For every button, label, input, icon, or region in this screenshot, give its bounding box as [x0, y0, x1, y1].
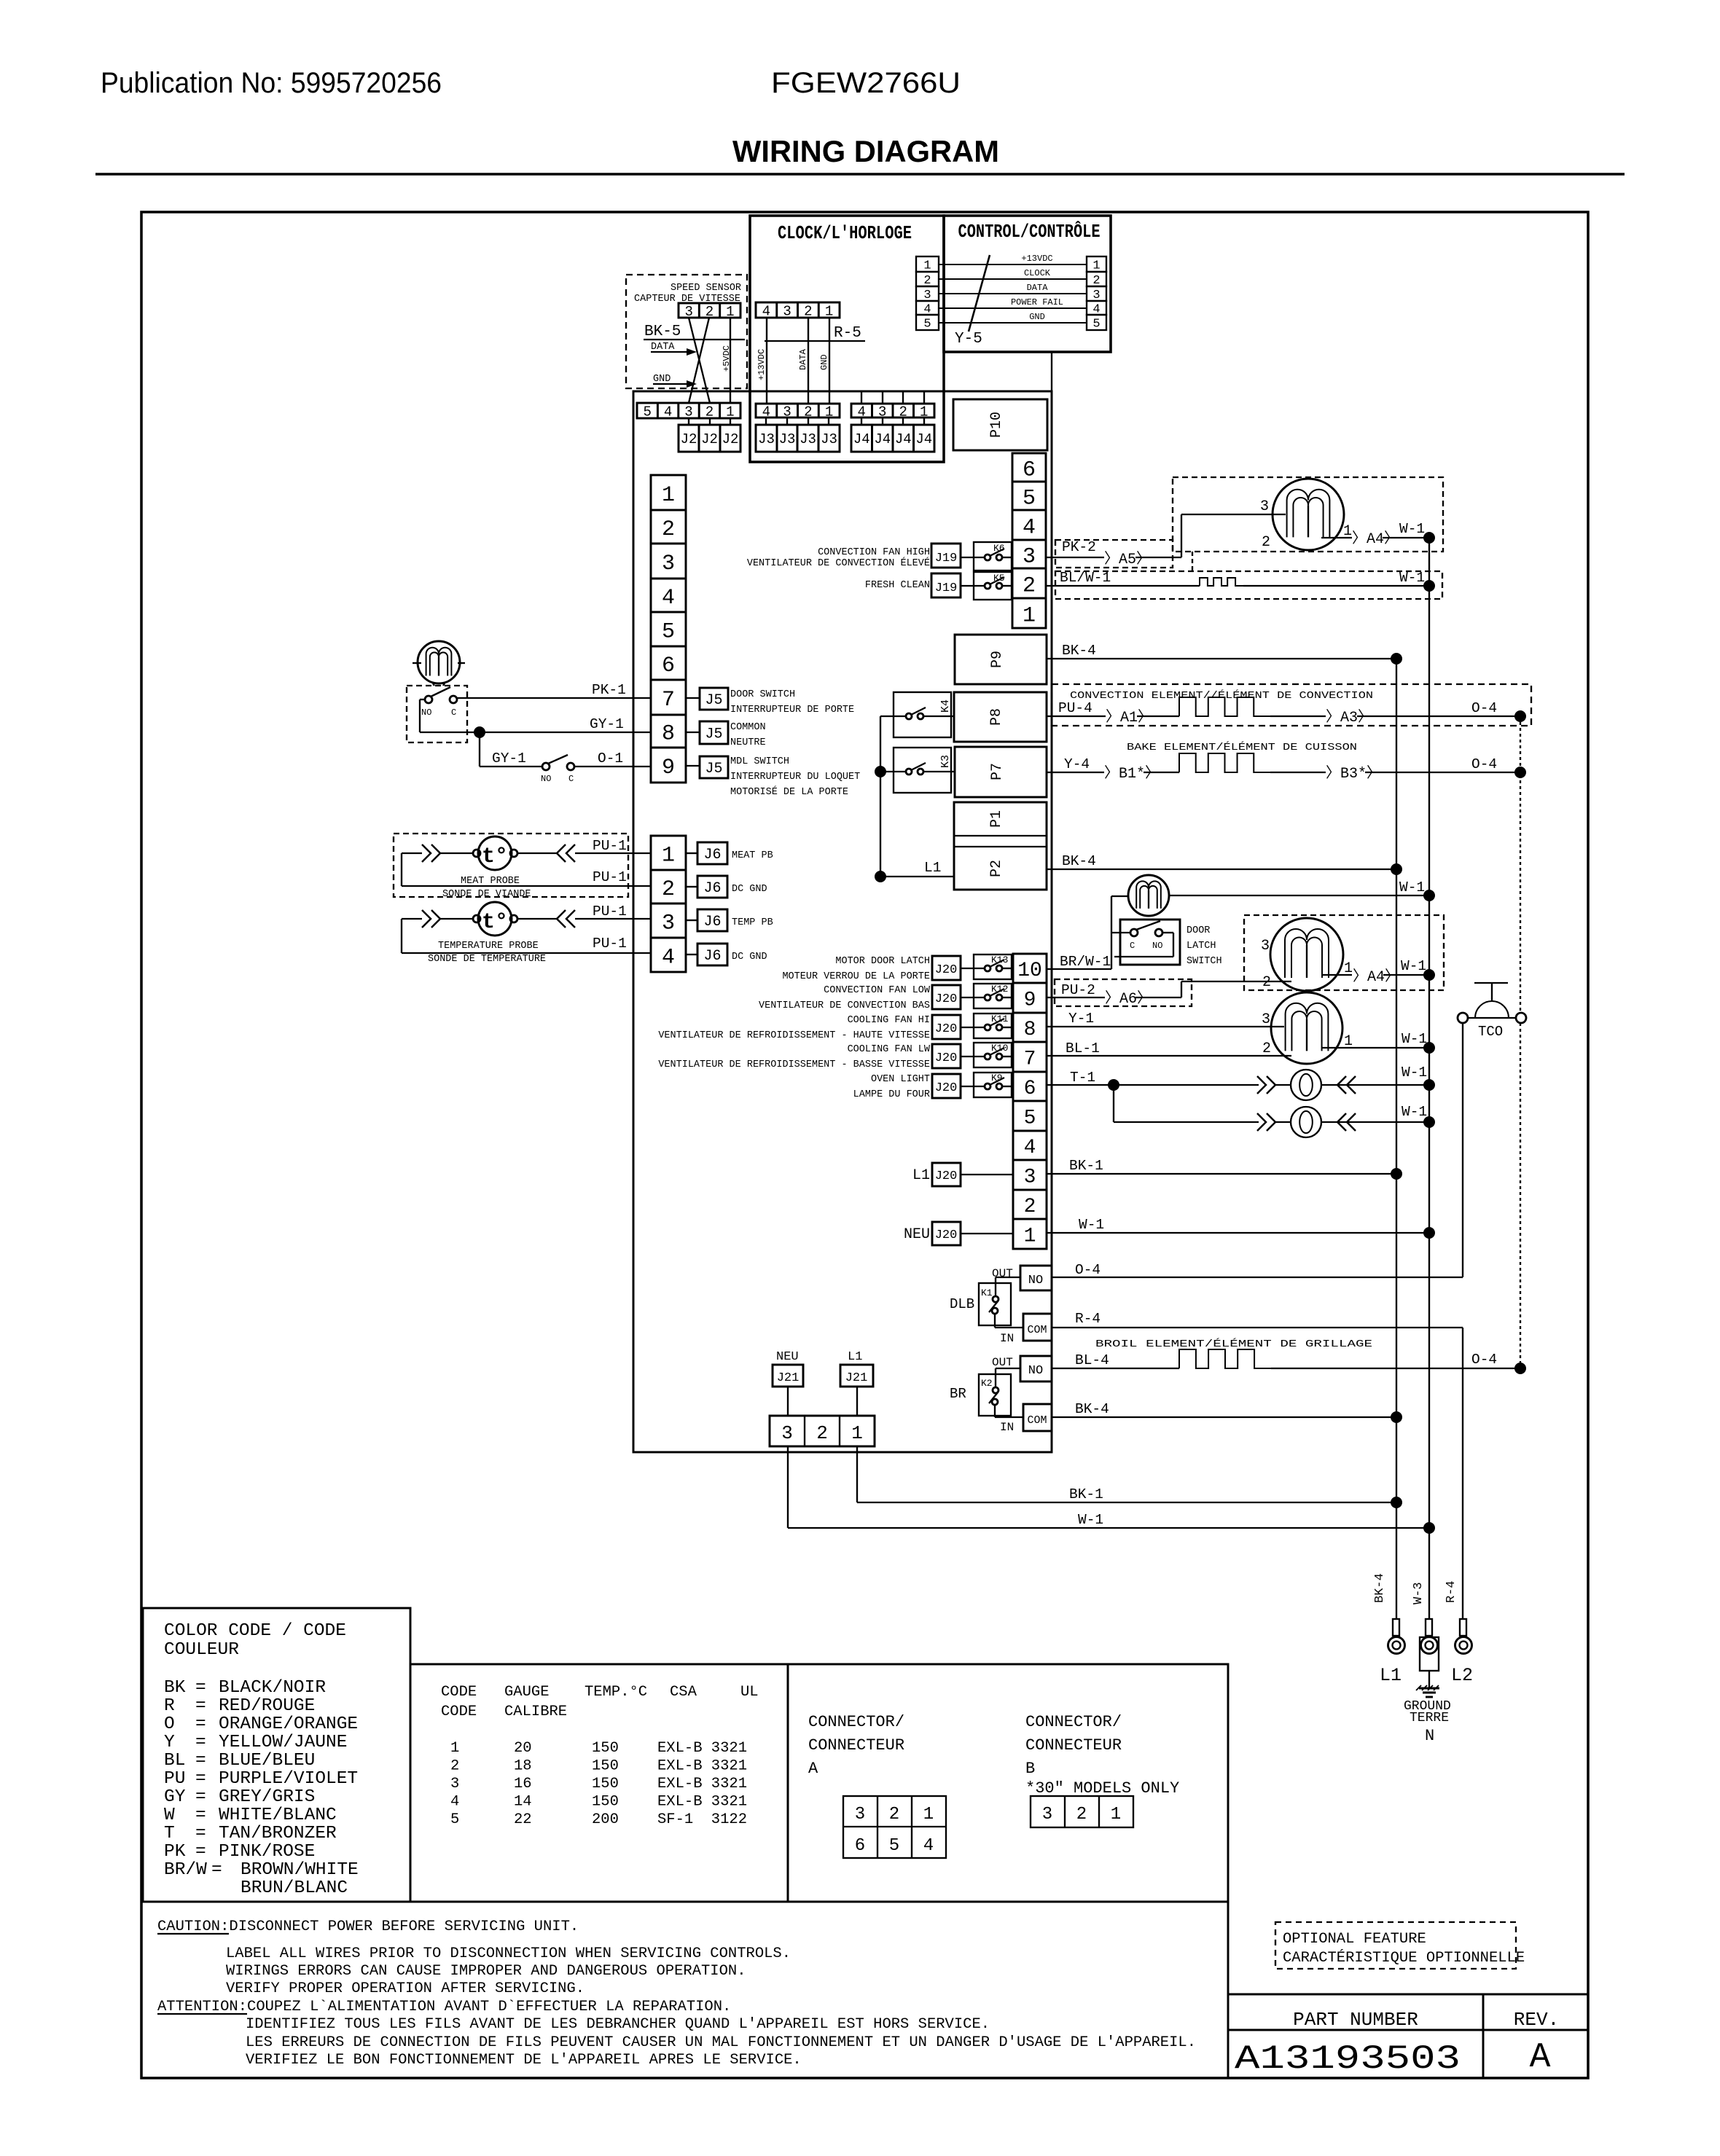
- clock box CLOCK/L'HORLOGE: [750, 216, 944, 462]
- junction W-1 conv fan low: [1423, 969, 1435, 981]
- oven lamp 2 right arrows: [1337, 1113, 1356, 1131]
- junction W-1 door latch motor: [1423, 890, 1435, 901]
- connector P9: [955, 635, 1047, 684]
- svg-text:14: 14: [514, 1794, 532, 1811]
- svg-text:O-4: O-4: [1471, 1352, 1497, 1368]
- svg-text:BL: BL: [164, 1751, 185, 1771]
- control box title: [958, 221, 1101, 243]
- svg-text:SPEED SENSOR: SPEED SENSOR: [671, 283, 741, 294]
- wire Y-4 from P7: [1047, 756, 1104, 772]
- color code box: [143, 1608, 410, 1902]
- temperature probe connector arrows right: [557, 910, 575, 928]
- svg-text:2: 2: [450, 1758, 459, 1775]
- svg-text:J6: J6: [703, 880, 721, 897]
- svg-text:=: =: [195, 1678, 206, 1698]
- wire T-1 oven light: [1047, 1070, 1259, 1086]
- svg-text:1: 1: [726, 404, 734, 420]
- svg-text:J20: J20: [935, 1169, 958, 1183]
- door latch motor wires: [1111, 879, 1429, 896]
- svg-text:LATCH: LATCH: [1187, 941, 1216, 952]
- J19 box convection fan high: [931, 544, 961, 568]
- junction W-1 fresh clean: [1423, 580, 1435, 592]
- svg-text:=: =: [195, 1824, 206, 1843]
- terminal L1 ring: [1388, 1619, 1405, 1654]
- svg-text:8: 8: [662, 721, 675, 746]
- svg-text:W-3: W-3: [1412, 1582, 1426, 1604]
- svg-text:COULEUR: COULEUR: [164, 1640, 239, 1660]
- node arrow A3: [1326, 709, 1372, 726]
- part number table: [1228, 1994, 1588, 2078]
- svg-text:DC GND: DC GND: [732, 952, 767, 963]
- node arrow A6: [1105, 990, 1152, 1008]
- temp probe return wire PU-1 to J6 pin4: [402, 919, 651, 953]
- wire R-4 DLB COM: [1052, 1311, 1463, 1619]
- svg-text:7: 7: [662, 688, 675, 713]
- svg-text:DC GND: DC GND: [732, 884, 767, 895]
- door switch internal wire: [420, 699, 480, 732]
- svg-text:2: 2: [1024, 1196, 1036, 1218]
- relay K12 switch: [961, 989, 1013, 1000]
- svg-text:t°: t°: [482, 844, 508, 869]
- svg-text:K12: K12: [991, 984, 1008, 995]
- svg-text:J20: J20: [935, 1228, 958, 1242]
- svg-text:CLOCK/L'HORLOGE: CLOCK/L'HORLOGE: [778, 222, 912, 244]
- junction node L1: [875, 871, 886, 882]
- wire bus O-4 upper vertical: [1520, 716, 1521, 1013]
- wire bus W-1 vertical: [1428, 538, 1430, 1619]
- meat probe sensor t-circle: [440, 836, 557, 870]
- svg-text:W-1: W-1: [1399, 570, 1425, 586]
- wire O-4 convection: [1357, 700, 1520, 716]
- wire T-1 branch to lamp2: [1114, 1085, 1259, 1122]
- label BK-4 vertical: [1373, 1573, 1387, 1603]
- J6 pin column 1-4: [651, 836, 686, 972]
- svg-text:〉B1*〉: 〉B1*〉: [1104, 765, 1160, 783]
- svg-text:MEAT PB: MEAT PB: [732, 850, 773, 861]
- svg-text:t°: t°: [482, 910, 508, 935]
- clock wires to J3: [767, 318, 829, 403]
- svg-text:2: 2: [889, 1805, 899, 1824]
- wire PU-1 meat to J6 pin1: [575, 838, 651, 854]
- svg-text:J2: J2: [722, 431, 739, 447]
- svg-text:COLOR CODE / CODE: COLOR CODE / CODE: [164, 1621, 346, 1641]
- svg-text:3: 3: [783, 303, 791, 319]
- label L1 J21: [848, 1350, 862, 1364]
- svg-text:4: 4: [923, 1836, 934, 1856]
- svg-text:〉A4〉: 〉A4〉: [1353, 968, 1399, 986]
- svg-text:5: 5: [923, 318, 931, 332]
- svg-text:BR/W: BR/W: [164, 1860, 207, 1880]
- relay K4 switch: [880, 707, 954, 719]
- svg-text:WIRING DIAGRAM: WIRING DIAGRAM: [732, 134, 999, 168]
- svg-text:O-1: O-1: [598, 750, 623, 767]
- svg-text:O-4: O-4: [1471, 756, 1497, 772]
- wire gauge table box: [410, 1664, 788, 1902]
- relay K10 switch: [961, 1048, 1013, 1059]
- link control box to board: [1051, 352, 1052, 391]
- meat probe dashed box: [394, 834, 628, 897]
- svg-text:1: 1: [923, 1805, 934, 1824]
- door motor: [413, 641, 465, 686]
- label FRESH CLEAN: [865, 580, 930, 591]
- conv fan low dashed box: [1244, 915, 1444, 990]
- svg-text:J5: J5: [705, 692, 722, 709]
- svg-text:3: 3: [1023, 544, 1036, 569]
- svg-text:=: =: [195, 1696, 206, 1716]
- wire lamp1 to W-1: [1321, 1065, 1429, 1085]
- speed sensor dashed box: [626, 275, 747, 388]
- wire down to MDL switch: [480, 732, 542, 767]
- svg-text:ATTENTION:COUPEZ L`ALIMENTATIO: ATTENTION:COUPEZ L`ALIMENTATION AVANT D`…: [157, 1999, 731, 2015]
- svg-text:LES ERREURS DE CONNECTION DE F: LES ERREURS DE CONNECTION DE FILS PEUVEN…: [246, 2034, 1196, 2051]
- door latch motor: [1128, 875, 1169, 916]
- svg-text:GY-1: GY-1: [492, 750, 526, 767]
- svg-text:OPTIONAL FEATURE: OPTIONAL FEATURE: [1283, 1931, 1426, 1948]
- svg-text:3: 3: [1260, 498, 1269, 515]
- svg-text:IDENTIFIEZ TOUS LES FILS AVANT: IDENTIFIEZ TOUS LES FILS AVANT DE LES DE…: [246, 2016, 990, 2033]
- thermal cutoff TCO: [1458, 983, 1526, 1040]
- control-clock signal wires +13VDC CLOCK DATA POWER FAIL GND: [939, 254, 1087, 323]
- J3 pin header 4-3-2-1: [756, 404, 840, 420]
- svg-text:3: 3: [1262, 1011, 1270, 1028]
- wire lamp2 to W-1: [1321, 1104, 1429, 1122]
- svg-text:O: O: [164, 1714, 175, 1734]
- J20 box L1: [912, 1163, 961, 1186]
- svg-text:〉A3〉: 〉A3〉: [1326, 709, 1372, 726]
- svg-text:J2: J2: [681, 431, 697, 447]
- svg-text:P8: P8: [988, 708, 1005, 726]
- convection element resistor: [1137, 697, 1326, 716]
- wire PK-1 to J5 pin7: [457, 682, 651, 698]
- svg-text:SONDE DE VIANDE: SONDE DE VIANDE: [442, 889, 531, 900]
- svg-text:CODE: CODE: [441, 1704, 477, 1720]
- svg-text:=: =: [195, 1769, 206, 1789]
- wire J20 NEU to pin1: [961, 1233, 1013, 1234]
- svg-text:CONVECTION ELEMENT//ÉLÉMENT DE: CONVECTION ELEMENT//ÉLÉMENT DE CONVECTIO…: [1070, 690, 1373, 702]
- door latch switch contacts: [1130, 921, 1162, 951]
- label +5VDC vertical: [722, 345, 732, 372]
- svg-text:J19: J19: [935, 552, 958, 565]
- svg-text:BK-1: BK-1: [1069, 1486, 1103, 1502]
- control connector right pins 1-5: [1087, 256, 1106, 332]
- svg-text:J5: J5: [705, 761, 722, 777]
- wire Y-1 to motor pin3: [1047, 1011, 1284, 1028]
- svg-text:P10: P10: [988, 412, 1005, 438]
- svg-text:UL: UL: [740, 1684, 759, 1701]
- temperature probe connector arrows left: [422, 910, 440, 928]
- svg-text:PK-1: PK-1: [592, 682, 626, 698]
- label GY-1: [590, 716, 624, 732]
- svg-text:BLACK/NOIR: BLACK/NOIR: [219, 1678, 326, 1698]
- svg-text:L2: L2: [1451, 1665, 1473, 1686]
- svg-text:REV.: REV.: [1514, 2009, 1559, 2031]
- wire BK-4 from P9: [1047, 643, 1396, 659]
- svg-text:6: 6: [1023, 458, 1036, 482]
- label IN DLB: [1000, 1332, 1014, 1345]
- door switch contacts NO C: [421, 687, 457, 718]
- svg-text:5: 5: [662, 619, 675, 644]
- label DATA vertical: [798, 348, 808, 370]
- svg-text:2: 2: [1023, 573, 1036, 598]
- header model number FGEW2766U: [771, 67, 961, 99]
- connector P7: [955, 747, 1047, 797]
- svg-text:P2: P2: [988, 860, 1005, 877]
- svg-text:PU-2: PU-2: [1061, 982, 1095, 998]
- svg-text:COM: COM: [1027, 1414, 1047, 1427]
- svg-text:CONVECTION FAN HIGH: CONVECTION FAN HIGH: [818, 547, 930, 558]
- relay K2 box BR: [979, 1374, 1011, 1416]
- label COOLING FAN LW: [658, 1044, 931, 1070]
- svg-text:1: 1: [1344, 960, 1353, 977]
- meat probe return wire PU-1 to J6 pin2: [402, 853, 651, 886]
- ground symbol: [1416, 1671, 1439, 1697]
- label OUT BR: [992, 1356, 1013, 1369]
- svg-text:CONNECTEUR: CONNECTEUR: [808, 1736, 904, 1755]
- junction W-1 A4 top: [1423, 532, 1435, 544]
- relay K5 box: [974, 572, 1012, 600]
- wire bus BK vertical: [1396, 659, 1397, 1619]
- svg-text:DATA: DATA: [798, 348, 808, 370]
- oven lamp 1: [1275, 1070, 1321, 1100]
- svg-text:1: 1: [851, 1422, 863, 1444]
- J2 connector boxes: [679, 418, 740, 452]
- svg-text:BK-4: BK-4: [1062, 853, 1096, 869]
- node arrow B3*: [1326, 765, 1381, 783]
- label DATA with arrow: [651, 342, 697, 356]
- svg-text:3: 3: [450, 1776, 459, 1792]
- J3 connector boxes: [756, 418, 840, 452]
- svg-text:W-1: W-1: [1401, 958, 1426, 974]
- svg-text:NEUTRE: NEUTRE: [730, 737, 766, 748]
- convection element dashed box: [1052, 684, 1531, 726]
- oven lamp 1 connector arrows: [1257, 1076, 1275, 1094]
- svg-text:YELLOW/JAUNE: YELLOW/JAUNE: [219, 1733, 347, 1752]
- wire O-4 bake: [1365, 756, 1520, 772]
- node arrow A5: [1104, 551, 1151, 568]
- svg-text:=: =: [195, 1842, 206, 1862]
- svg-text:BL/W-1: BL/W-1: [1060, 570, 1111, 586]
- svg-text:+13VDC: +13VDC: [757, 349, 767, 380]
- svg-text:N: N: [1425, 1727, 1434, 1745]
- svg-text:VENTILATEUR DE CONVECTION BAS: VENTILATEUR DE CONVECTION BAS: [759, 1000, 930, 1011]
- broil element resistor: [1179, 1349, 1520, 1368]
- motor M1 pin1 wire to A4: [1321, 521, 1429, 548]
- connector P1 P2: [954, 802, 1047, 890]
- svg-text:IN: IN: [1000, 1332, 1014, 1345]
- svg-text:RED/ROUGE: RED/ROUGE: [219, 1696, 315, 1716]
- svg-text:TCO: TCO: [1478, 1024, 1503, 1040]
- svg-text:Y-5: Y-5: [955, 331, 982, 348]
- wire A6 to motor pin2: [1135, 974, 1291, 997]
- wire from header pin1 down: [856, 1446, 858, 1502]
- svg-text:W-1: W-1: [1399, 879, 1425, 895]
- svg-text:5: 5: [889, 1836, 899, 1856]
- J5 pin column 1-9: [651, 475, 686, 783]
- svg-text:BROIL ELEMENT/ÉLÉMENT DE GRILL: BROIL ELEMENT/ÉLÉMENT DE GRILLAGE: [1095, 1338, 1372, 1350]
- junction BK-4 P2: [1391, 863, 1402, 875]
- junction BK-4 P9: [1391, 653, 1402, 665]
- wire PU-4 from P8: [1047, 700, 1106, 716]
- svg-text:VERIFY PROPER OPERATION AFTER: VERIFY PROPER OPERATION AFTER SERVICING.: [226, 1980, 585, 1997]
- svg-text:+13VDC: +13VDC: [1021, 254, 1052, 264]
- svg-text:2: 2: [1262, 534, 1270, 551]
- svg-text:BROWN/WHITE: BROWN/WHITE: [241, 1860, 359, 1880]
- svg-text:4: 4: [1023, 515, 1036, 540]
- svg-text:PU-1: PU-1: [593, 936, 627, 952]
- svg-text:GAUGE: GAUGE: [504, 1684, 550, 1701]
- conv fan low motor M2: [1261, 918, 1343, 991]
- wire L1 to P2: [880, 860, 954, 877]
- relay K6 box: [974, 542, 1012, 571]
- svg-text:PU: PU: [164, 1769, 185, 1789]
- BR COM wire: [995, 1405, 1023, 1417]
- svg-text:GY-1: GY-1: [590, 716, 624, 732]
- door latch switch wires: [1111, 933, 1173, 957]
- svg-text:J3: J3: [800, 431, 816, 447]
- convection fan motor M1: [1273, 479, 1344, 550]
- oven lamp 2: [1275, 1107, 1321, 1137]
- svg-text:GY: GY: [164, 1787, 186, 1807]
- svg-text:CALIBRE: CALIBRE: [504, 1704, 567, 1720]
- oven lamp 1 right arrows: [1337, 1076, 1356, 1094]
- svg-text:BAKE ELEMENT/ÉLÉMENT DE CUISSO: BAKE ELEMENT/ÉLÉMENT DE CUISSON: [1127, 742, 1357, 753]
- PU-2 dashed box: [1055, 979, 1192, 1006]
- svg-text:〉B3*〉: 〉B3*〉: [1326, 765, 1381, 783]
- svg-text:4: 4: [662, 945, 675, 970]
- svg-text:J20: J20: [935, 963, 958, 977]
- svg-text:=: =: [195, 1733, 206, 1752]
- svg-text:R-4: R-4: [1445, 1580, 1458, 1603]
- title underline: [95, 173, 1625, 176]
- svg-text:PINK/ROSE: PINK/ROSE: [219, 1842, 315, 1862]
- connector table box: [788, 1664, 1228, 1902]
- svg-text:1: 1: [1343, 523, 1352, 540]
- svg-text:EXL-B 3321: EXL-B 3321: [657, 1758, 747, 1775]
- svg-text:200: 200: [592, 1811, 619, 1828]
- svg-text:3: 3: [1042, 1805, 1052, 1824]
- svg-text:9: 9: [1024, 989, 1036, 1012]
- door latch switch box: [1120, 920, 1180, 965]
- svg-text:PU-1: PU-1: [593, 903, 627, 920]
- P-column pins 6-1: [1012, 453, 1046, 628]
- svg-text:Publication No: 5995720256: Publication No: 5995720256: [101, 67, 442, 99]
- control connector left pins 1-5: [916, 256, 939, 332]
- svg-text:WHITE/BLANC: WHITE/BLANC: [219, 1806, 337, 1825]
- svg-text:2: 2: [662, 877, 675, 902]
- label CONVECTION ELEMENT: [1070, 690, 1373, 702]
- svg-text:J6: J6: [703, 914, 721, 930]
- svg-text:MOTOR DOOR LATCH: MOTOR DOOR LATCH: [835, 956, 930, 967]
- relay K13 switch: [961, 960, 1013, 971]
- junction O-4 bake: [1514, 767, 1526, 778]
- fresh clean dashed box: [1055, 571, 1442, 599]
- svg-text:=: =: [195, 1714, 206, 1734]
- svg-text:4: 4: [762, 303, 770, 319]
- svg-text:W-1: W-1: [1402, 1104, 1427, 1120]
- svg-text:1: 1: [726, 304, 734, 320]
- part number value A13193503: [1235, 2040, 1461, 2078]
- title WIRING DIAGRAM: [732, 134, 999, 168]
- svg-text:VENTILATEUR DE REFROIDISSEMENT: VENTILATEUR DE REFROIDISSEMENT - BASSE V…: [658, 1059, 930, 1070]
- J20 box COOLING FAN LW: [932, 1044, 961, 1068]
- label DLB: [950, 1296, 974, 1312]
- svg-text:GREY/GRIS: GREY/GRIS: [219, 1787, 315, 1807]
- wire K4-K3 vertical: [880, 716, 881, 877]
- wire O-4 DLB NO to TCO: [1052, 1023, 1463, 1278]
- motor M1 pin2 label: [1262, 534, 1270, 551]
- svg-text:5: 5: [450, 1811, 459, 1828]
- wire PK-2: [1047, 539, 1104, 557]
- label COMMON NEUTRE: [730, 722, 766, 748]
- relay K11 box: [974, 1014, 1012, 1038]
- svg-text:PK: PK: [164, 1842, 186, 1862]
- svg-text:SONDE DE TEMPÉRATURE: SONDE DE TEMPÉRATURE: [428, 953, 546, 965]
- DLB NO wire: [996, 1277, 1020, 1296]
- junction W-1 pin1: [1423, 1227, 1435, 1239]
- svg-text:5: 5: [1023, 486, 1036, 511]
- svg-text:MOTORISÉ DE LA PORTE: MOTORISÉ DE LA PORTE: [730, 786, 848, 798]
- label MDL SWITCH: [730, 756, 860, 798]
- svg-text:2: 2: [705, 404, 714, 420]
- label Y-5: [955, 331, 982, 348]
- svg-text:PU-1: PU-1: [593, 869, 627, 885]
- svg-text:150: 150: [592, 1794, 619, 1811]
- wire BK-4 from P2: [1047, 853, 1396, 869]
- junction BK-1: [1391, 1168, 1402, 1180]
- convection fan dashed box motor: [1173, 477, 1443, 552]
- relay K2 switch: [989, 1387, 998, 1405]
- svg-text:C: C: [568, 774, 574, 784]
- svg-text:MDL SWITCH: MDL SWITCH: [730, 756, 789, 767]
- meat probe connector arrows right: [557, 844, 575, 862]
- svg-text:POWER FAIL: POWER FAIL: [1011, 297, 1063, 307]
- label IN BR: [1000, 1421, 1014, 1434]
- J2 pin header 5-4-3-2-1: [637, 403, 740, 420]
- dashed link: [1192, 552, 1193, 571]
- svg-text:2: 2: [705, 304, 714, 320]
- svg-text:MEAT PROBE: MEAT PROBE: [461, 876, 520, 887]
- terminal N body: [1420, 1619, 1439, 1671]
- convection fan dashed box small: [1055, 540, 1173, 568]
- svg-text:Y-4: Y-4: [1064, 756, 1090, 772]
- svg-text:B: B: [1025, 1760, 1035, 1778]
- wire W-1 from J20 pin1: [1047, 1217, 1429, 1233]
- svg-text:J20: J20: [935, 1081, 958, 1095]
- meat probe connector arrows left: [422, 844, 440, 862]
- svg-text:FGEW2766U: FGEW2766U: [771, 67, 961, 99]
- svg-text:T-1: T-1: [1070, 1070, 1095, 1086]
- svg-text:〉A4〉: 〉A4〉: [1352, 530, 1399, 548]
- svg-text:=: =: [195, 1787, 206, 1807]
- svg-text:J21: J21: [777, 1371, 800, 1385]
- svg-text:DOOR SWITCH: DOOR SWITCH: [730, 689, 795, 700]
- svg-text:1: 1: [825, 303, 833, 319]
- svg-text:EXL-B 3321: EXL-B 3321: [657, 1794, 747, 1811]
- junction BK-1 bottom: [1391, 1497, 1402, 1508]
- svg-text:EXL-B 3321: EXL-B 3321: [657, 1776, 747, 1792]
- junction O-4 convection: [1514, 710, 1526, 722]
- part number header: [1293, 2009, 1418, 2031]
- svg-text:OVEN LIGHT: OVEN LIGHT: [871, 1074, 930, 1085]
- wire BL-1 to motor pin2: [1047, 1040, 1291, 1057]
- label GND with arrow: [653, 374, 697, 388]
- label OUT DLB: [992, 1267, 1013, 1280]
- svg-text:CSA: CSA: [670, 1684, 697, 1701]
- wire from header pin3 down: [787, 1446, 789, 1528]
- svg-text:P9: P9: [989, 651, 1006, 668]
- label TEMPERATURE PROBE: [428, 941, 546, 965]
- DLB NO box: [1020, 1266, 1052, 1290]
